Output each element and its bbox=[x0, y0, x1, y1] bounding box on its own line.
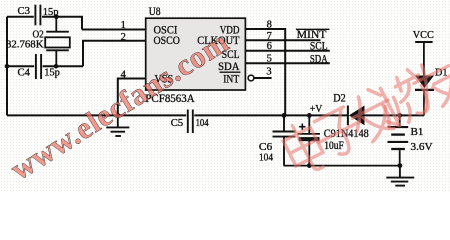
svg-text:3.6V: 3.6V bbox=[411, 141, 433, 153]
wire pin 6 SCL bbox=[245, 50, 329, 52]
MINT overline bbox=[296, 28, 330, 30]
capacitor C4 bbox=[36, 54, 41, 79]
svg-text:15p: 15p bbox=[43, 6, 59, 18]
wire top crystal net left bbox=[7, 16, 34, 18]
capacitor 10uF electrolytic bbox=[298, 115, 321, 165]
pin 3 inversion circle bbox=[248, 75, 254, 81]
junction node B1-top bbox=[397, 113, 402, 118]
wire second rail (ground rail bottom right) bbox=[284, 165, 400, 167]
wire left vertical bbox=[6, 17, 8, 116]
wire pin 2 OSCO bbox=[83, 41, 146, 66]
capacitor C5 bbox=[188, 110, 193, 134]
svg-text:U8: U8 bbox=[149, 6, 161, 18]
junction node 10uF-bottom bbox=[307, 163, 312, 168]
capacitor C3 bbox=[35, 5, 40, 26]
svg-text:MINT: MINT bbox=[297, 29, 327, 41]
wire main rail middle segment bbox=[194, 114, 348, 116]
wire pin 3 INT bbox=[254, 77, 272, 79]
diode D1 bbox=[415, 76, 434, 116]
wire pin 4 VSS bbox=[118, 79, 146, 116]
svg-text:C5: C5 bbox=[171, 117, 184, 129]
svg-text:INT: INT bbox=[223, 72, 240, 86]
char dian bbox=[279, 119, 329, 178]
wire main rail right segment bbox=[365, 114, 425, 116]
svg-text:3: 3 bbox=[266, 67, 271, 78]
diode D2 bbox=[348, 106, 365, 126]
wire pin 5 SDA bbox=[245, 62, 329, 64]
svg-text:VCC: VCC bbox=[413, 29, 434, 41]
wire bottom crystal net left bbox=[7, 65, 34, 67]
junction node crystal-bottom bbox=[54, 64, 59, 69]
svg-text:6: 6 bbox=[267, 41, 272, 52]
char zi bbox=[310, 104, 370, 163]
junction node left-bottom bbox=[5, 64, 10, 69]
wire pin 8 VDD bbox=[245, 29, 285, 115]
svg-text:4: 4 bbox=[121, 69, 127, 80]
svg-text:15p: 15p bbox=[44, 66, 60, 78]
svg-text:C4: C4 bbox=[18, 66, 31, 78]
IC U8 PCF8563A body bbox=[146, 18, 246, 90]
svg-text:D2: D2 bbox=[333, 92, 346, 104]
junction node C6-top bbox=[282, 113, 287, 118]
wire pin 7 CLKOUT bbox=[245, 39, 320, 41]
ground (left, VSS) bbox=[106, 115, 129, 136]
wire bottom crystal net right bbox=[43, 65, 83, 67]
svg-text:8: 8 bbox=[267, 19, 272, 30]
wire pin 1 OSCI bbox=[82, 29, 146, 31]
svg-text:C3: C3 bbox=[18, 5, 31, 17]
svg-text:2: 2 bbox=[121, 32, 126, 43]
capacitor C6 bbox=[273, 115, 296, 165]
svg-text:5: 5 bbox=[267, 54, 272, 65]
junction node crystal-top bbox=[54, 14, 59, 19]
junction node B1-bottom bbox=[398, 163, 403, 168]
ground (right, battery) bbox=[386, 166, 414, 186]
plus sign of 10uF bbox=[299, 124, 305, 130]
crystal O2 bbox=[45, 17, 70, 66]
svg-text:1: 1 bbox=[121, 20, 126, 31]
battery B1 bbox=[388, 115, 409, 165]
svg-text:+V: +V bbox=[310, 103, 323, 115]
wire top crystal net right bbox=[42, 17, 82, 30]
svg-text:32.768K: 32.768K bbox=[6, 39, 44, 51]
svg-text:SDA: SDA bbox=[310, 54, 328, 66]
wire VCC to D1 bbox=[423, 42, 425, 76]
power VCC bar bbox=[415, 41, 432, 43]
svg-text:10uF: 10uF bbox=[324, 140, 344, 152]
svg-text:104: 104 bbox=[259, 151, 273, 163]
char you bbox=[406, 53, 450, 114]
svg-text:SCL: SCL bbox=[310, 41, 328, 53]
svg-text:OSCO: OSCO bbox=[154, 33, 181, 47]
char fa bbox=[342, 84, 402, 146]
char shao bbox=[370, 66, 436, 131]
svg-text:B1: B1 bbox=[411, 126, 424, 138]
watermark chinese characters bbox=[279, 53, 450, 178]
junction node ground-rail bbox=[115, 113, 120, 118]
svg-text:104: 104 bbox=[196, 117, 209, 129]
wire main rail left segment bbox=[7, 114, 186, 116]
INT overline bbox=[220, 71, 241, 73]
junction node 10uF-top +V bbox=[307, 113, 312, 118]
